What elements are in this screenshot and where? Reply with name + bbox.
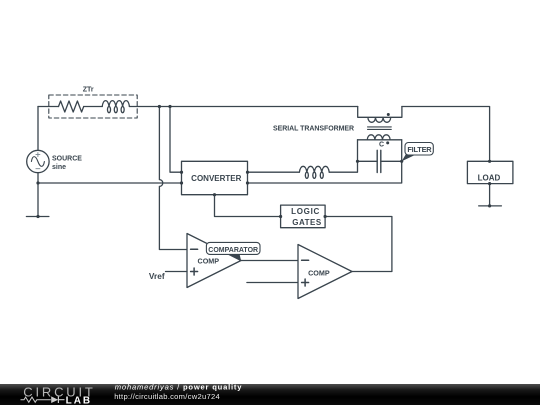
- wire converter out bottom: [248, 140, 402, 183]
- op-amp U2 triangle: [298, 245, 352, 299]
- converter box: [182, 161, 248, 194]
- wire converter out top: [248, 171, 300, 173]
- junction converter left pin 2: [180, 181, 183, 184]
- wire vertical to comparator minus (with hop): [159, 107, 187, 250]
- svg-text:SERIAL TRANSFORMER: SERIAL TRANSFORMER: [273, 126, 354, 133]
- load box: [467, 161, 513, 183]
- svg-text:Vref: Vref: [149, 271, 165, 281]
- wire logic gates to comp2 output: [325, 217, 392, 272]
- svg-text:COMP: COMP: [198, 257, 220, 266]
- svg-text:GATES: GATES: [292, 218, 322, 227]
- wire between resistor and inductor: [84, 106, 103, 108]
- polarity dot transformer secondary: [386, 141, 389, 144]
- junction on top rail (to converter branch): [168, 105, 171, 108]
- wire source bottom vertical: [37, 173, 39, 217]
- impedance box ZTr (dashed): [49, 95, 137, 118]
- svg-text:CONVERTER: CONVERTER: [191, 174, 241, 183]
- op-amp U1 triangle: [187, 234, 241, 288]
- wire load to ground: [489, 184, 491, 206]
- resistor (ZTr): [59, 101, 84, 112]
- source V1 circle: [27, 150, 49, 172]
- wire top rail to transformer: [129, 106, 357, 108]
- logo diode: [51, 396, 58, 403]
- svg-text:http://circuitlab.com/cw2u724: http://circuitlab.com/cw2u724: [114, 392, 220, 401]
- capacitor C plates: [377, 150, 381, 172]
- source V1 sine: [31, 157, 44, 167]
- transformer core: [368, 127, 392, 129]
- junction source bottom: [36, 181, 39, 184]
- junction converter right pin 2: [246, 181, 249, 184]
- junction converter left pin 1: [180, 171, 183, 174]
- junction load bottom pin: [488, 182, 491, 185]
- footer bar: [0, 384, 540, 405]
- svg-text:LOGIC: LOGIC: [291, 207, 320, 216]
- wire source top vertical: [37, 107, 39, 151]
- node filter right (cap / secondary / return): [400, 160, 403, 163]
- wire comp2 plus stub: [247, 282, 298, 284]
- ground (load): [479, 205, 502, 207]
- wire top rail to load: [402, 107, 490, 162]
- wire vertical to converter input: [170, 107, 182, 173]
- flag COMPARATOR: [227, 254, 241, 261]
- svg-text:SOURCE: SOURCE: [52, 156, 82, 163]
- wire source bottom horizontal to converter: [38, 182, 182, 184]
- svg-text:sine: sine: [52, 164, 66, 171]
- svg-text:FILTER: FILTER: [407, 145, 432, 154]
- source V1 plus: [36, 153, 40, 157]
- svg-text:ZTr: ZTr: [83, 86, 94, 93]
- svg-text:LAB: LAB: [66, 395, 93, 405]
- ground (source): [26, 216, 49, 218]
- transformer primary winding: [358, 107, 402, 123]
- junction logic gates left pin: [279, 215, 282, 218]
- inductor L filter: [299, 166, 329, 178]
- svg-text:LOAD: LOAD: [478, 173, 501, 182]
- logo resistor zigzag: [21, 397, 51, 402]
- svg-text:mohamedriyas / power quality: mohamedriyas / power quality: [115, 383, 243, 392]
- flag FILTER: [402, 154, 416, 161]
- inductor (ZTr): [102, 101, 129, 113]
- wire inductor to node: [329, 140, 357, 172]
- polarity dot transformer primary: [387, 113, 390, 116]
- junction converter right pin 1: [246, 171, 249, 174]
- svg-text:COMPARATOR: COMPARATOR: [208, 247, 258, 254]
- junction ground (source): [36, 215, 39, 218]
- wire Vref to plus input: [166, 271, 188, 273]
- source V1 minus: [36, 168, 40, 170]
- junction load top pin: [488, 160, 491, 163]
- svg-text:C: C: [379, 141, 384, 148]
- wire comp1 output to comp2 minus: [241, 260, 298, 262]
- wire converter bottom to logic gates: [215, 195, 281, 217]
- op-amp U1 minus sign: [191, 248, 198, 250]
- transformer secondary winding: [358, 135, 402, 140]
- wire top rail left: [38, 106, 59, 108]
- op-amp U2 plus sign: [302, 279, 309, 286]
- svg-text:COMP: COMP: [308, 269, 330, 278]
- logic gates box: [281, 205, 326, 228]
- junction on top rail (to comparator branch): [158, 105, 161, 108]
- op-amp U1 plus sign: [191, 268, 198, 275]
- junction ground (load): [488, 204, 491, 207]
- junction converter bottom pin: [213, 193, 216, 196]
- capacitor C wires: [358, 160, 402, 162]
- node filter left (cap / secondary / inductor): [356, 160, 359, 163]
- junction logic gates right pin: [324, 215, 327, 218]
- op-amp U2 minus sign: [302, 259, 309, 261]
